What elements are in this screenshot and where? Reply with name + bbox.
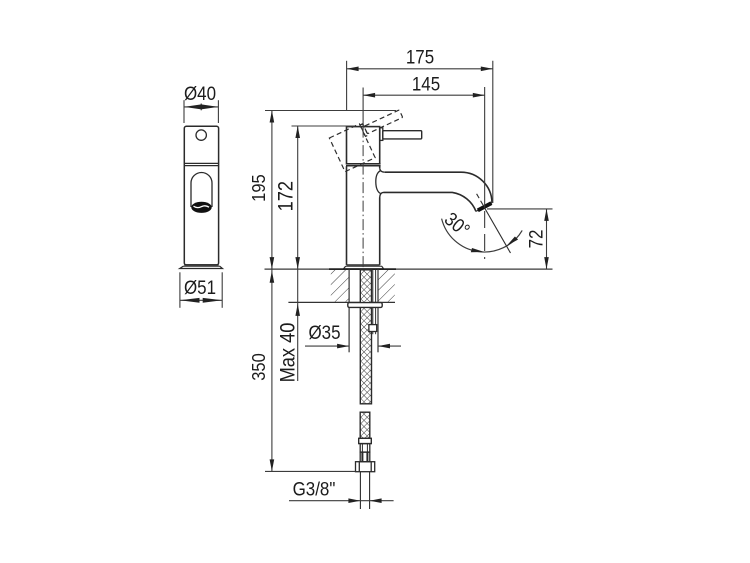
- svg-text:145: 145: [412, 72, 440, 94]
- svg-text:Ø40: Ø40: [184, 82, 216, 104]
- svg-text:195: 195: [248, 174, 269, 201]
- svg-text:Ø51: Ø51: [184, 276, 216, 298]
- svg-text:72: 72: [524, 230, 546, 249]
- svg-text:175: 175: [406, 45, 434, 67]
- svg-text:350: 350: [248, 353, 269, 380]
- svg-text:Ø35: Ø35: [308, 321, 340, 343]
- svg-text:G3/8": G3/8": [293, 477, 336, 499]
- svg-text:172: 172: [274, 181, 297, 211]
- svg-text:Max 40: Max 40: [276, 323, 299, 383]
